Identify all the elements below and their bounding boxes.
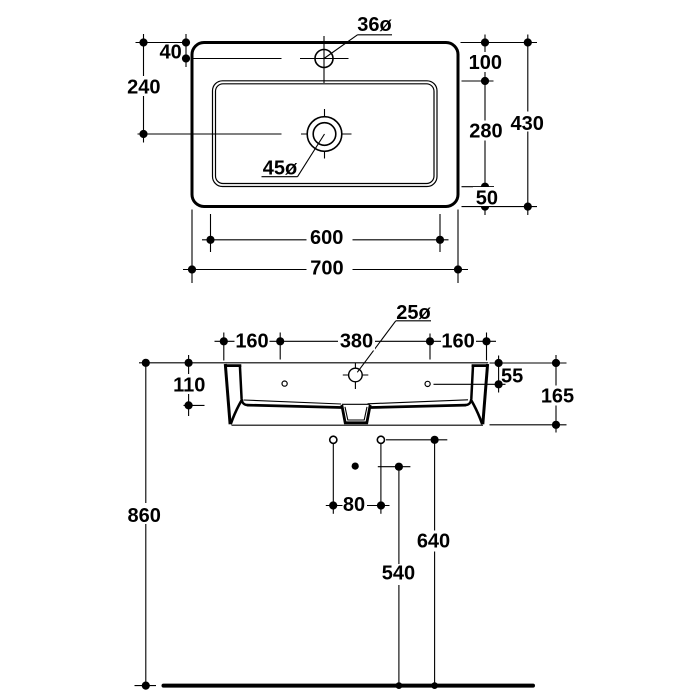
extension below rim left edge xyxy=(191,210,193,284)
svg-text:55: 55 xyxy=(501,366,523,388)
dim 430 (far right) xyxy=(509,35,545,216)
drain inner circle 45mm xyxy=(313,123,336,146)
tap hole circle 36mm xyxy=(315,50,333,68)
svg-text:860: 860 xyxy=(128,505,161,527)
right wall inner edge xyxy=(465,366,473,406)
left wall outer edge xyxy=(225,364,230,424)
svg-text:160: 160 xyxy=(441,330,474,352)
inner bowl bottom line right (thin) xyxy=(368,400,469,404)
extension line from 860/110 dims to basin top xyxy=(139,362,225,364)
right extension at bowl top xyxy=(462,80,494,82)
extension above front view left edge xyxy=(223,333,225,361)
left wall inner edge xyxy=(240,366,248,406)
extension line from 240-dim to drain xyxy=(138,133,282,135)
drain trap box xyxy=(342,404,370,423)
leader 36ø xyxy=(324,14,393,59)
inner bowl bottom line left (thin) xyxy=(244,400,342,404)
basin inner bowl edge (inner of double line) xyxy=(216,84,435,184)
extension line from 40-dim to tap hole xyxy=(191,58,282,60)
svg-text:430: 430 xyxy=(511,113,544,135)
basin inner bowl edge (outer of double line) xyxy=(213,81,438,187)
extension right of front view top xyxy=(490,362,567,364)
dim chain 100/280/50 (right) xyxy=(467,35,505,216)
bottom-right extension line xyxy=(462,206,538,208)
extension at basin bottom right xyxy=(490,424,567,426)
tick at 540 top xyxy=(378,466,411,468)
right wall top cap xyxy=(472,364,489,367)
svg-text:50: 50 xyxy=(476,187,498,209)
extension for 600 right xyxy=(439,214,441,252)
tap hole front view crosshair horizontal xyxy=(343,374,369,376)
svg-text:40: 40 xyxy=(159,41,181,63)
extension above front view at 160 left xyxy=(279,333,281,360)
svg-text:160: 160 xyxy=(235,330,268,352)
svg-text:240: 240 xyxy=(127,77,160,99)
svg-text:700: 700 xyxy=(310,258,343,280)
svg-text:36ø: 36ø xyxy=(357,14,392,36)
extension below rim right edge xyxy=(457,210,459,284)
extension above front view right edge xyxy=(486,333,488,361)
top-right extension line xyxy=(461,42,538,44)
dim 110 xyxy=(170,355,207,416)
svg-text:80: 80 xyxy=(343,494,365,516)
mounting hole right xyxy=(377,436,384,443)
basin top edge (front view) xyxy=(225,362,489,364)
top-left extension line xyxy=(136,42,191,44)
tap hole crosshair horizontal xyxy=(300,58,349,60)
tap hole front view circle 25mm xyxy=(349,368,363,382)
vertical through right mounting hole xyxy=(380,444,382,514)
tap hole crosshair vertical xyxy=(323,36,325,83)
right wall outer edge xyxy=(483,364,488,424)
left wall top cap xyxy=(225,364,242,367)
vertical through left mounting hole xyxy=(332,444,334,514)
dim 80 xyxy=(326,494,390,516)
svg-text:600: 600 xyxy=(310,227,343,249)
svg-text:100: 100 xyxy=(469,52,502,74)
dim 600 xyxy=(202,227,449,250)
overflow hole right xyxy=(425,381,430,386)
svg-text:380: 380 xyxy=(340,330,373,352)
svg-text:110: 110 xyxy=(173,375,205,397)
dim 40 (left) xyxy=(159,34,190,67)
dim row 160/380/160 xyxy=(215,330,497,352)
extension above front view at 160 right xyxy=(429,334,431,360)
svg-text:25ø: 25ø xyxy=(396,302,431,324)
drain crosshair vertical xyxy=(324,109,326,159)
dim 165 xyxy=(538,355,576,433)
svg-text:640: 640 xyxy=(417,530,450,552)
drain crosshair horizontal xyxy=(301,133,352,135)
left wall bottom fillet xyxy=(231,401,242,425)
svg-text:165: 165 xyxy=(541,386,574,408)
floor line xyxy=(164,684,534,688)
svg-text:45ø: 45ø xyxy=(263,157,298,179)
overflow hole left xyxy=(282,381,287,386)
extension for 600 left xyxy=(210,214,212,252)
dim 240 (left) xyxy=(126,34,161,143)
right extension at bowl bottom xyxy=(462,186,495,188)
mounting hole left xyxy=(330,436,337,443)
dim 700 xyxy=(183,258,468,281)
right wall bottom fillet xyxy=(471,401,482,425)
bottom front edge left (thick) xyxy=(247,405,342,407)
bottom front edge right (thick) xyxy=(371,405,466,407)
tap hole front view crosshair vertical xyxy=(354,363,356,390)
drain outer circle xyxy=(307,117,342,152)
svg-text:280: 280 xyxy=(469,120,502,142)
dim 640 xyxy=(416,436,454,689)
extension from overflow hole to 55 dim xyxy=(434,383,506,385)
svg-text:540: 540 xyxy=(382,563,415,585)
dim 860 xyxy=(126,359,163,690)
line from right hole to 640 dim xyxy=(386,439,447,441)
basin bottom edge (thin) xyxy=(232,424,484,426)
basin outer rim (top view) xyxy=(192,43,458,207)
leader 45ø xyxy=(262,134,325,179)
drain center mark xyxy=(352,463,359,470)
leader 25ø xyxy=(357,302,431,372)
dim 55 xyxy=(495,356,524,393)
dim 540 xyxy=(380,463,418,689)
